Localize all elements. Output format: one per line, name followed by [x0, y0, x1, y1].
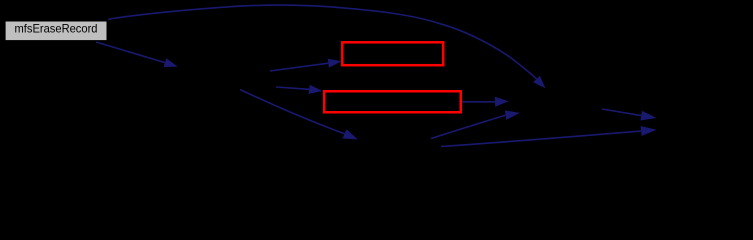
arrowhead to N4: [343, 129, 358, 139]
edge N4 to N5: [431, 115, 506, 138]
edge mfsEraseRecord to N2: [96, 42, 165, 63]
arrowhead arc to N5: [533, 76, 545, 89]
arrowhead to box2: [309, 85, 323, 94]
edge N2 to red box 2: [276, 87, 309, 89]
edge N2 to red box 1: [270, 63, 328, 71]
arrowhead box2 to N5: [495, 97, 509, 107]
svg-text:mfsEraseRecord: mfsEraseRecord: [15, 22, 98, 36]
node red box 2 (truncated node): [324, 91, 461, 112]
edge N4 to N6 (far right, shallow): [441, 131, 641, 147]
arrowhead to box1: [328, 59, 342, 68]
arrowhead N5 to N6: [640, 111, 656, 121]
arrowhead to N2: [164, 58, 178, 67]
edge red box 2 to N5: [462, 101, 495, 103]
arrowhead N4 to N6: [641, 126, 657, 136]
node red box 1 (truncated node): [342, 42, 443, 65]
edge N2 to N4 (bottom node): [240, 90, 345, 134]
edge mfsEraseRecord to node N5 (long top arc): [108, 5, 536, 79]
node mfsEraseRecord (root, grey filled): [5, 21, 107, 41]
edge N5 to N6: [602, 109, 641, 116]
arrowhead N4 to N5: [505, 110, 520, 120]
